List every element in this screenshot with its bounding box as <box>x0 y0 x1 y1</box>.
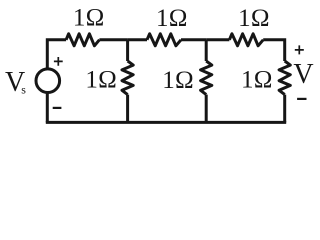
svg-text:1Ω: 1Ω <box>156 5 188 32</box>
wire: source bottom lead <box>46 92 49 122</box>
wire: R6 bottom lead to bottom-right corner <box>283 95 286 123</box>
wire: R4 bottom lead to bottom rail <box>205 95 208 123</box>
wire: R1 to node A <box>99 38 127 41</box>
resistor R3 (series 1 ohm, top middle) <box>147 34 181 46</box>
resistor R4 (shunt 1 ohm at node B) <box>201 61 212 95</box>
resistor R5 (series 1 ohm, top right) <box>229 34 263 46</box>
svg-text:1Ω: 1Ω <box>241 67 273 94</box>
wire: R3 to node B <box>181 38 206 41</box>
wire: R5 to top-right corner down to R6 <box>263 40 285 61</box>
wire: R2 bottom lead to bottom rail <box>126 95 129 123</box>
output polarity - <box>297 98 306 100</box>
node B: junction drop from top rail <box>205 40 208 61</box>
node A: junction drop from top rail <box>126 40 129 61</box>
svg-text:1Ω: 1Ω <box>85 66 117 93</box>
svg-text:V: V <box>293 59 313 90</box>
wire: node A to R3 <box>128 38 147 41</box>
svg-text:1Ω: 1Ω <box>162 67 194 94</box>
wire: node B to R5 <box>206 38 229 41</box>
svg-text:s: s <box>21 83 26 97</box>
source polarity - <box>53 107 62 109</box>
resistor R6 (shunt 1 ohm, output branch) <box>279 61 290 95</box>
wire: source top lead and top-left corner to R1 <box>47 40 66 69</box>
resistor R1 (series 1 ohm, top left) <box>66 34 99 46</box>
wire: bottom rail <box>46 121 286 124</box>
output polarity + <box>295 45 304 54</box>
svg-text:1Ω: 1Ω <box>73 5 105 32</box>
resistor R2 (shunt 1 ohm at node A) <box>122 61 133 95</box>
voltage source Vs (circle) <box>36 69 60 93</box>
source polarity + <box>54 57 63 66</box>
svg-text:1Ω: 1Ω <box>238 5 270 32</box>
